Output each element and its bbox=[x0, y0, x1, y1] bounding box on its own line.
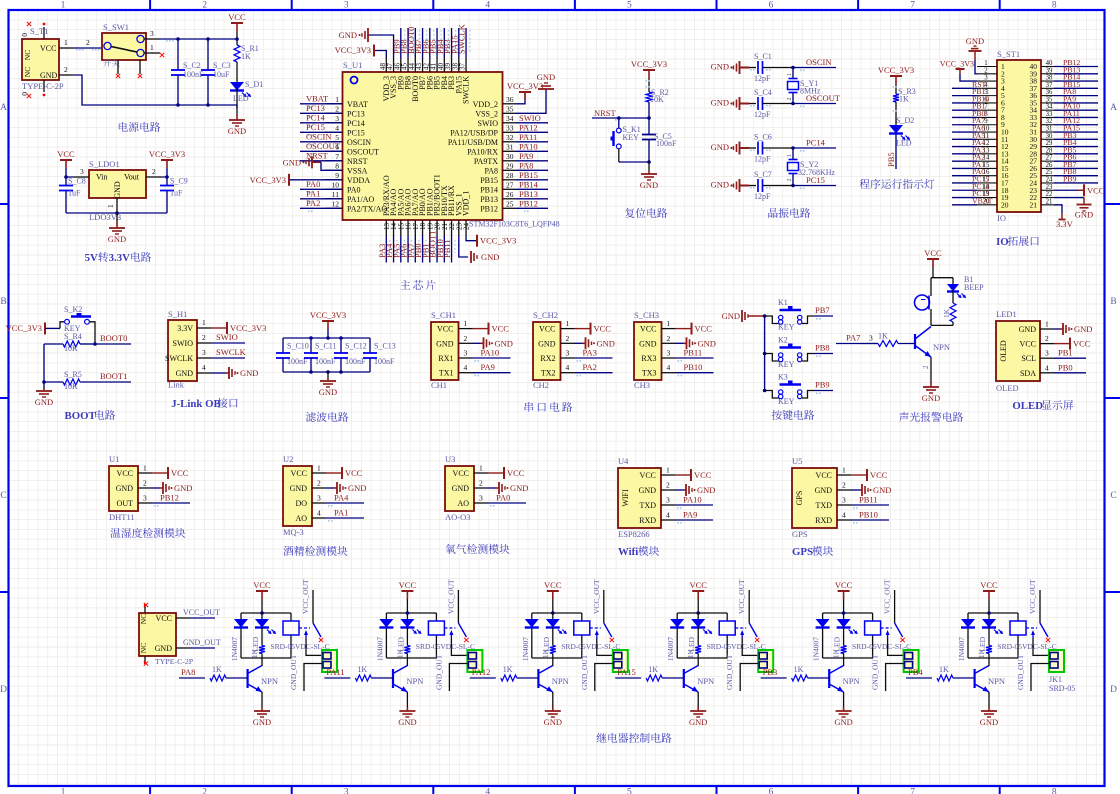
pin LED1.3 bbox=[1040, 357, 1054, 359]
title 声光报警电路 bbox=[899, 412, 963, 422]
svg-text:4: 4 bbox=[335, 123, 339, 132]
svg-text:NC: NC bbox=[139, 643, 148, 653]
pin H1.4 bbox=[197, 372, 211, 374]
power VCC_3V3 at VDD_3 bbox=[374, 51, 386, 59]
svg-text:Vout: Vout bbox=[124, 173, 140, 182]
svg-text:OSCIN: OSCIN bbox=[806, 57, 832, 67]
switch S_SW1 bbox=[102, 33, 146, 60]
svg-text:4: 4 bbox=[317, 509, 321, 518]
svg-text:GND: GND bbox=[873, 485, 891, 495]
svg-text:NRST: NRST bbox=[347, 157, 368, 166]
MCU pin 3 PC14 bbox=[325, 122, 343, 124]
svg-text:VCC: VCC bbox=[156, 614, 172, 623]
wire R2 to node bbox=[648, 102, 650, 118]
svg-text:3.3V: 3.3V bbox=[177, 324, 193, 333]
wire/net PA6 (bottom) bbox=[407, 236, 409, 263]
svg-text:30: 30 bbox=[1046, 133, 1053, 140]
relay unit 6 loop frame bbox=[968, 612, 1018, 614]
MCU pin 21 PB10/TX bbox=[443, 220, 445, 236]
resistor 1K relay unit 3 bbox=[550, 646, 556, 654]
svg-text:27: 27 bbox=[1046, 155, 1053, 162]
wire/net PA7 base bbox=[836, 343, 862, 345]
svg-text:GND: GND bbox=[116, 484, 134, 493]
wire/net PA9 CH1 bbox=[473, 372, 511, 374]
svg-text:2: 2 bbox=[984, 67, 988, 74]
svg-text:10uF: 10uF bbox=[213, 70, 230, 79]
wire net PC14 bbox=[793, 147, 836, 149]
wire/net BOOT1 bbox=[80, 381, 131, 383]
power VCC top-right bbox=[228, 12, 246, 31]
power VCC U3 bbox=[488, 472, 504, 474]
wire/net OSCOUT bbox=[300, 150, 342, 152]
svg-text:11: 11 bbox=[332, 190, 339, 199]
wire VCC_OUT relay unit 6 bbox=[1039, 590, 1041, 623]
svg-text:2: 2 bbox=[787, 98, 793, 101]
wire NRST label bbox=[592, 117, 649, 119]
junction C2 bottom bbox=[176, 103, 180, 107]
power VCC_3V3 at VDDA bbox=[289, 179, 342, 181]
svg-text:KEY: KEY bbox=[623, 133, 640, 142]
svg-text:AO: AO bbox=[295, 514, 307, 523]
svg-text:10K: 10K bbox=[650, 95, 664, 104]
MCU pin 44 BOOT0 bbox=[414, 58, 416, 72]
svg-text:S_CH3: S_CH3 bbox=[634, 310, 659, 320]
svg-text:39: 39 bbox=[1046, 67, 1053, 74]
svg-text:3: 3 bbox=[317, 494, 321, 503]
resistor 1K relay unit 5 bbox=[841, 646, 847, 654]
svg-text:PB12: PB12 bbox=[160, 493, 179, 503]
wire VCC down bbox=[236, 31, 238, 45]
relay unit 3 loop frame bbox=[532, 612, 582, 614]
svg-text:4: 4 bbox=[464, 363, 468, 372]
svg-text:1: 1 bbox=[1045, 320, 1049, 329]
junction K1 bbox=[763, 314, 767, 318]
svg-text:S_LDO1: S_LDO1 bbox=[89, 159, 120, 169]
wire/net SWCLK (top) bbox=[465, 28, 467, 58]
wire emitter relay unit 5 bbox=[843, 692, 845, 707]
wire/net PA9 U4 bbox=[675, 519, 713, 521]
pin U3.1 VCC bbox=[474, 472, 488, 474]
svg-text:1: 1 bbox=[479, 464, 483, 473]
pin S_T1 VCC 1 bbox=[59, 47, 73, 49]
svg-text:32: 32 bbox=[1046, 118, 1053, 125]
svg-text:VSSA: VSSA bbox=[347, 166, 368, 175]
wire/net PB8 (top) bbox=[407, 28, 409, 58]
relay contact relay unit 5 bbox=[881, 627, 892, 629]
svg-text:VCC: VCC bbox=[924, 248, 942, 258]
connector out relay unit 2 bbox=[467, 650, 482, 672]
svg-text:CH2: CH2 bbox=[533, 380, 549, 390]
crystal S_Y2 32.768KHz bbox=[792, 148, 794, 159]
svg-text:U5: U5 bbox=[792, 456, 802, 466]
svg-text:AO-O3: AO-O3 bbox=[445, 512, 471, 522]
svg-text:K2: K2 bbox=[778, 336, 788, 345]
svg-text:SWCLK: SWCLK bbox=[462, 76, 471, 104]
wire/net PA10 CH1 bbox=[473, 357, 511, 359]
title 复位电路 bbox=[625, 208, 667, 218]
wire VCC_OUT relay unit 3 bbox=[603, 590, 605, 623]
svg-text:2: 2 bbox=[86, 38, 90, 47]
svg-text:32: 32 bbox=[506, 133, 514, 142]
svg-text:GND_OUT: GND_OUT bbox=[871, 654, 880, 690]
ground GND at VSSA bbox=[312, 161, 321, 163]
svg-text:S_K2: S_K2 bbox=[64, 305, 82, 314]
svg-text:1: 1 bbox=[984, 60, 987, 67]
pin CH3.1 bbox=[662, 328, 676, 330]
junction LDO gnd bbox=[115, 211, 119, 215]
svg-text:GND: GND bbox=[966, 36, 984, 46]
svg-text:1K: 1K bbox=[794, 665, 804, 674]
MCU pin 10 PA0 bbox=[325, 188, 343, 190]
ground GND at VSS_3 bbox=[368, 35, 394, 58]
svg-text:PA10: PA10 bbox=[519, 141, 538, 151]
connector S_T1 (TYPE-C-2P) bbox=[22, 39, 59, 80]
svg-text:GND: GND bbox=[597, 338, 615, 348]
svg-text:1: 1 bbox=[61, 788, 66, 794]
svg-text:26: 26 bbox=[1046, 162, 1053, 169]
svg-text:VCC_3V3: VCC_3V3 bbox=[480, 236, 516, 246]
rail boot bbox=[43, 344, 45, 388]
wire/net PA2 bbox=[300, 207, 342, 209]
resistor 1K base bbox=[878, 341, 898, 347]
title 电源电路 bbox=[119, 122, 160, 132]
svg-text:VCC_3V3: VCC_3V3 bbox=[631, 59, 667, 69]
relay coil relay unit 1 bbox=[283, 621, 299, 635]
svg-text:RXD: RXD bbox=[815, 516, 832, 525]
power VCC relay unit 3 bbox=[544, 580, 562, 599]
svg-text:VCC: VCC bbox=[345, 468, 363, 478]
power VCC oled bbox=[1054, 343, 1070, 345]
pin U4.4 RXD bbox=[661, 519, 675, 521]
svg-text:GND: GND bbox=[398, 717, 416, 727]
svg-text:OSCIN: OSCIN bbox=[306, 131, 332, 141]
svg-text:NPN: NPN bbox=[552, 676, 569, 686]
MCU pin 22 PB11/RX bbox=[451, 220, 453, 236]
svg-text:GND: GND bbox=[537, 72, 555, 82]
wire/net PA0 U3 bbox=[488, 502, 526, 504]
wire/net SWCLK jlink bbox=[211, 357, 245, 359]
wire emitter relay unit 4 bbox=[697, 692, 699, 707]
svg-text:4: 4 bbox=[485, 1, 490, 11]
svg-text:GND: GND bbox=[815, 486, 833, 495]
svg-text:2: 2 bbox=[335, 104, 339, 113]
capacitor S_C1 12pF bbox=[749, 67, 756, 69]
svg-text:4: 4 bbox=[842, 511, 846, 520]
title 滤波电路 bbox=[306, 412, 348, 422]
wire/net PA10 U4 bbox=[675, 504, 713, 506]
svg-text:1K: 1K bbox=[942, 308, 951, 318]
svg-text:100nF: 100nF bbox=[315, 357, 336, 366]
svg-text:4: 4 bbox=[1045, 363, 1049, 372]
svg-text:23: 23 bbox=[1046, 184, 1053, 191]
svg-text:WIFI: WIFI bbox=[621, 489, 630, 507]
resistor 1K relay unit 2 bbox=[404, 646, 410, 654]
svg-text:S_C11: S_C11 bbox=[315, 342, 337, 351]
pin CH2.2 bbox=[561, 342, 575, 344]
diode 1N4007 relay unit 4 bbox=[670, 619, 684, 628]
title 继电器控制电路 bbox=[597, 733, 672, 743]
svg-text:VCC_3V3: VCC_3V3 bbox=[149, 149, 185, 159]
svg-text:2: 2 bbox=[64, 65, 68, 74]
wire emitter bbox=[930, 357, 932, 383]
svg-text:1: 1 bbox=[787, 73, 793, 76]
wire/net PA1 bbox=[300, 198, 342, 200]
MCU pin 27 PB14 bbox=[503, 188, 517, 190]
svg-text:VCC: VCC bbox=[816, 471, 832, 480]
connector S_ST1 body bbox=[997, 60, 1041, 212]
pin LED1.4 bbox=[1040, 372, 1054, 374]
svg-text:PA8: PA8 bbox=[485, 166, 499, 175]
relay unit 2 loop frame bbox=[386, 612, 436, 614]
svg-text:PA11: PA11 bbox=[326, 667, 344, 677]
pin LED1.2 bbox=[1040, 343, 1054, 345]
wire/net OSCIN bbox=[300, 141, 342, 143]
svg-text:3: 3 bbox=[80, 167, 84, 176]
svg-text:GND_OUT: GND_OUT bbox=[434, 654, 443, 690]
wire mid relay unit 3 bbox=[552, 613, 554, 619]
module U5 (GPS) body bbox=[792, 468, 837, 528]
capacitor S_C6 12pF bbox=[749, 147, 756, 149]
svg-text:ESP8266: ESP8266 bbox=[618, 529, 650, 539]
power VCC_3V3 indicator bbox=[878, 65, 914, 84]
pin LDO Vin 3 bbox=[74, 176, 89, 178]
svg-text:GND: GND bbox=[35, 397, 53, 407]
svg-text:34: 34 bbox=[506, 114, 514, 123]
junction f2 bbox=[339, 336, 343, 340]
wire/net PB10 CH3 bbox=[676, 372, 714, 374]
buzzer B1 BEEP bbox=[930, 278, 932, 296]
svg-text:IO: IO bbox=[996, 236, 1009, 248]
title 串口电路 bbox=[525, 402, 573, 412]
wire/net PA2 CH2 bbox=[575, 372, 613, 374]
svg-text:RX2: RX2 bbox=[540, 354, 555, 363]
ground GND at VSS_2 bbox=[516, 89, 546, 113]
wire SW1.3 to VCC rail bbox=[160, 38, 237, 40]
wire/net PB15 bbox=[516, 179, 548, 181]
svg-text:S_D2: S_D2 bbox=[896, 116, 914, 125]
svg-text:1K: 1K bbox=[977, 648, 986, 658]
pin CH1.4 bbox=[459, 372, 473, 374]
svg-text:2: 2 bbox=[152, 167, 156, 176]
svg-text:3.3V: 3.3V bbox=[109, 252, 130, 264]
svg-text:NPN: NPN bbox=[933, 342, 950, 352]
svg-text:1: 1 bbox=[464, 319, 468, 328]
MCU pin 34 SWIO bbox=[503, 122, 517, 124]
junction fb2 bbox=[339, 370, 343, 374]
resistor S_R1 1K bbox=[234, 45, 240, 62]
svg-text:3: 3 bbox=[344, 1, 349, 11]
svg-text:22: 22 bbox=[1046, 191, 1053, 198]
wire emitter relay unit 3 bbox=[552, 692, 554, 707]
svg-text:VCC: VCC bbox=[253, 580, 271, 590]
svg-text:PA1: PA1 bbox=[306, 188, 320, 198]
svg-text:VCC_OUT: VCC_OUT bbox=[737, 579, 746, 614]
ground GND relay unit 5 bbox=[834, 707, 852, 727]
wire/net BOOT1 (bottom) bbox=[436, 236, 438, 263]
svg-text:7: 7 bbox=[335, 152, 339, 161]
capacitors S_C10-S_C13 100nF bbox=[282, 338, 284, 353]
svg-text:1: 1 bbox=[150, 43, 154, 52]
MCU pin 1 VBAT bbox=[325, 103, 343, 105]
junction C3 top bbox=[206, 37, 210, 41]
power VCC_3V3 reset bbox=[631, 59, 667, 78]
svg-text:GND: GND bbox=[108, 234, 126, 244]
svg-text:12pF: 12pF bbox=[754, 155, 771, 164]
capacitor S_C3 10uF bbox=[201, 70, 215, 75]
wire GND_OUT relay unit 1 bbox=[304, 664, 322, 692]
diode LED relay unit 1 bbox=[255, 619, 276, 634]
MCU pin 47 VSS_3 bbox=[393, 58, 395, 72]
junction y2 bot bbox=[791, 184, 795, 188]
connector out relay unit 5 bbox=[904, 650, 919, 672]
svg-text:7: 7 bbox=[910, 1, 915, 11]
svg-text:PA11/USB/DM: PA11/USB/DM bbox=[448, 138, 498, 147]
title 酒精检测模块 bbox=[283, 546, 347, 556]
wire/net PA8 bbox=[516, 169, 548, 171]
keys left rail bbox=[764, 316, 766, 391]
title IO拓展口 bbox=[996, 236, 1039, 248]
svg-text:1K: 1K bbox=[878, 332, 888, 341]
svg-text:1N4007: 1N4007 bbox=[957, 637, 966, 661]
svg-text:VCC_3V3: VCC_3V3 bbox=[878, 65, 914, 75]
resistor 1K relay unit 6 bbox=[986, 646, 992, 654]
svg-text:37: 37 bbox=[459, 63, 467, 71]
wire T1.VCC to SW1 bbox=[73, 47, 102, 49]
MCU pin 39 PB3 bbox=[451, 58, 453, 72]
junction C2 top bbox=[176, 37, 180, 41]
wire/net PB13 bbox=[516, 198, 548, 200]
junction R5 rail bbox=[42, 380, 46, 384]
svg-text:4: 4 bbox=[666, 511, 670, 520]
svg-text:GND: GND bbox=[155, 644, 173, 653]
diode 1N4007 relay unit 1 bbox=[234, 619, 248, 628]
svg-text:1K: 1K bbox=[395, 648, 404, 658]
svg-text:GND: GND bbox=[348, 483, 366, 493]
svg-text:GND: GND bbox=[481, 252, 499, 262]
svg-text:PC15: PC15 bbox=[306, 122, 325, 132]
svg-text:1N4007: 1N4007 bbox=[230, 637, 239, 661]
svg-text:VCC: VCC bbox=[117, 469, 133, 478]
svg-text:GND_OUT: GND_OUT bbox=[289, 654, 298, 690]
node NRST bbox=[647, 116, 651, 120]
ground GND U4 bbox=[675, 489, 683, 491]
svg-text:20: 20 bbox=[1001, 200, 1009, 209]
relay contact relay unit 4 bbox=[735, 627, 746, 629]
capacitor S_C8 1uF bbox=[59, 186, 73, 191]
svg-text:NC: NC bbox=[23, 67, 32, 77]
MCU pin 29 PA8 bbox=[503, 169, 517, 171]
svg-text:GND: GND bbox=[538, 339, 556, 348]
transistor NPN relay unit 4 bbox=[683, 669, 685, 688]
ground GND relay unit 4 bbox=[689, 707, 707, 727]
svg-text:SWIO: SWIO bbox=[216, 332, 238, 342]
wire/net PC15 bbox=[300, 131, 342, 133]
svg-text:LED: LED bbox=[896, 139, 912, 148]
connector S_CH2 body bbox=[533, 322, 561, 380]
svg-text:K3: K3 bbox=[778, 373, 788, 382]
diode 1N4007 relay unit 6 bbox=[961, 619, 975, 628]
wire/net PB0 (bottom) bbox=[422, 236, 424, 263]
relay coil relay unit 2 bbox=[428, 621, 444, 635]
wire filter bottom rail bbox=[283, 371, 370, 373]
svg-text:GND_OUT: GND_OUT bbox=[725, 654, 734, 690]
svg-text:VCC: VCC bbox=[544, 580, 562, 590]
wire GND_OUT relay unit 6 bbox=[1031, 664, 1049, 692]
svg-text:SDA: SDA bbox=[1020, 369, 1036, 378]
svg-text:2: 2 bbox=[922, 365, 930, 369]
svg-text:SRD-05VDC-SL-C: SRD-05VDC-SL-C bbox=[852, 642, 911, 651]
svg-text:VCC: VCC bbox=[492, 324, 510, 334]
wire C3 branch bbox=[207, 39, 209, 70]
wire/net PB11 U5 bbox=[851, 504, 889, 506]
svg-text:GND: GND bbox=[176, 369, 194, 378]
svg-text:PB10: PB10 bbox=[859, 510, 878, 520]
svg-text:K1: K1 bbox=[778, 298, 788, 307]
svg-text:3.3V: 3.3V bbox=[1056, 219, 1074, 229]
crystal S_Y1 8MHz bbox=[792, 68, 794, 79]
wire R3 to D2 bbox=[895, 102, 897, 125]
wire/net PB3 (top) bbox=[451, 28, 453, 58]
svg-text:PB15: PB15 bbox=[480, 176, 498, 185]
MCU pin 31 PA10/RX bbox=[503, 150, 517, 152]
pin CH3.4 bbox=[662, 372, 676, 374]
wire/net PA0 bbox=[300, 188, 342, 190]
svg-text:PC13: PC13 bbox=[347, 109, 365, 118]
svg-text:IO: IO bbox=[997, 213, 1006, 223]
svg-text:S_C1: S_C1 bbox=[754, 52, 772, 61]
connector S_ST1 pins bbox=[977, 66, 997, 68]
svg-text:8: 8 bbox=[335, 161, 339, 170]
wire GND rail to D1 bottom bbox=[236, 105, 238, 108]
power VCC relay unit 6 bbox=[980, 580, 998, 599]
resistor 1K relay unit 1 bbox=[259, 646, 265, 654]
wire collector relay unit 6 bbox=[988, 658, 990, 667]
svg-text:VBAT: VBAT bbox=[972, 196, 993, 205]
svg-text:25: 25 bbox=[1046, 169, 1053, 176]
svg-text:S_C8: S_C8 bbox=[68, 177, 86, 186]
svg-text:SRD-05: SRD-05 bbox=[1049, 684, 1075, 693]
diode LED relay unit 4 bbox=[691, 619, 712, 634]
relay contact relay unit 1 bbox=[299, 627, 310, 629]
wire/net PB9 key bbox=[813, 390, 833, 392]
svg-text:S_C4: S_C4 bbox=[754, 88, 772, 97]
svg-text:PB12: PB12 bbox=[519, 198, 538, 208]
svg-text:SWIO: SWIO bbox=[173, 339, 194, 348]
diode LED relay unit 3 bbox=[546, 619, 567, 634]
wire/net PB7 (top) bbox=[422, 28, 424, 58]
svg-text:RXD: RXD bbox=[639, 516, 656, 525]
svg-text:SWCLK: SWCLK bbox=[165, 354, 193, 363]
MCU pin 25 PB12 bbox=[503, 207, 517, 209]
svg-text:5: 5 bbox=[627, 788, 632, 794]
svg-text:PB12: PB12 bbox=[480, 204, 498, 213]
svg-text:100nF: 100nF bbox=[656, 139, 677, 148]
svg-text:12: 12 bbox=[332, 199, 340, 208]
wire GND_OUT relay unit 5 bbox=[886, 664, 904, 692]
svg-text:SCL: SCL bbox=[1021, 354, 1036, 363]
junction C3 bottom bbox=[206, 103, 210, 107]
connector out relay unit 1 bbox=[322, 650, 337, 672]
svg-text:GND: GND bbox=[228, 126, 246, 136]
wire Vout to VCC_3V3 bbox=[161, 168, 167, 177]
svg-text:2: 2 bbox=[202, 1, 207, 11]
svg-text:VCC: VCC bbox=[291, 469, 307, 478]
wire alarm bottom rail bbox=[931, 324, 953, 326]
ground GND U3 bbox=[488, 487, 496, 489]
svg-text:PA10/RX: PA10/RX bbox=[467, 147, 498, 156]
power VCC_3V3 jlink bbox=[211, 327, 227, 329]
pin SW1 bottom a bbox=[117, 60, 119, 74]
